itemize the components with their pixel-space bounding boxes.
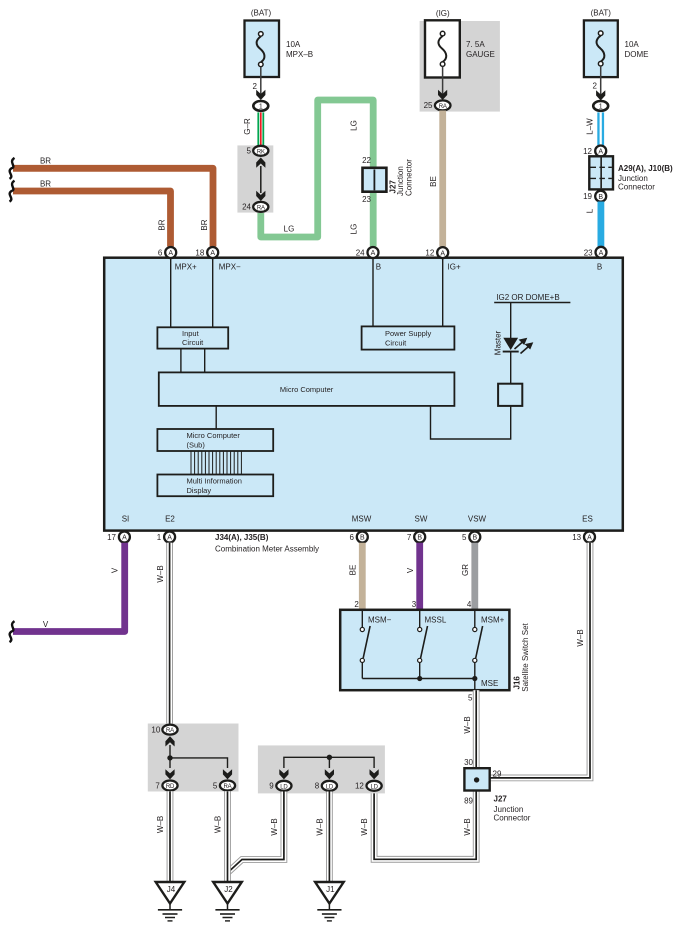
svg-text:B: B: [417, 535, 422, 542]
svg-text:W–B: W–B: [576, 629, 585, 646]
connector arrow below fuse MPX-B: [256, 90, 265, 100]
svg-text:J1: J1: [326, 885, 335, 894]
terminal 18 A circle: [195, 247, 218, 258]
svg-text:LG: LG: [350, 120, 359, 131]
svg-text:A: A: [371, 250, 376, 257]
wire L to terminal 23: [598, 202, 605, 247]
svg-text:5: 5: [213, 781, 218, 790]
ground J2: [213, 882, 242, 921]
svg-text:DOME: DOME: [625, 50, 649, 59]
svg-text:VSW: VSW: [468, 515, 487, 524]
svg-text:IG+: IG+: [448, 263, 461, 272]
svg-text:Connector: Connector: [405, 159, 414, 196]
svg-text:W–B: W–B: [156, 816, 165, 833]
svg-text:1: 1: [157, 533, 162, 542]
junction dot MSM+/bus: [472, 676, 477, 681]
wire W-B from J27 pin 89 to 12 LD: [374, 791, 476, 860]
lead wire 24A to power supply: [372, 259, 374, 327]
lead LED to resistor box: [510, 351, 512, 384]
svg-text:12: 12: [583, 147, 592, 156]
svg-text:SW: SW: [415, 515, 428, 524]
svg-text:V: V: [406, 567, 415, 573]
svg-text:RA: RA: [224, 784, 232, 790]
LED master indicator: [503, 338, 534, 354]
multi information display block: [157, 475, 273, 497]
svg-text:W–B: W–B: [214, 816, 223, 833]
svg-text:Power Supply: Power Supply: [385, 329, 432, 338]
wire BR to terminal 18: [13, 168, 213, 246]
terminal 8 LD oval: [315, 781, 337, 791]
connector block gray 10RA/7RD/5RA: [148, 724, 239, 792]
svg-text:10A: 10A: [625, 40, 640, 49]
wire L-W striped: [597, 112, 604, 146]
wire W-B from 7 RD to ground J4: [167, 791, 174, 882]
lead MSE to box edge: [474, 679, 476, 691]
svg-text:B: B: [376, 263, 381, 272]
svg-text:9: 9: [269, 782, 274, 791]
lead wire 12A to power supply: [442, 259, 444, 327]
wire to 7RD and 5RA: [170, 758, 228, 768]
svg-text:Satellite Switch Set: Satellite Switch Set: [521, 622, 530, 691]
svg-text:23: 23: [362, 195, 371, 204]
junction connector J27 pins 30/29/89: [464, 768, 531, 822]
terminal 12 A circle: [583, 146, 606, 157]
arrow down to 8 LD: [325, 769, 334, 779]
connector block gray RK/RA: [237, 145, 273, 212]
svg-text:MPX−: MPX−: [219, 263, 241, 272]
svg-text:BR: BR: [200, 219, 209, 230]
wire W-B from 5 RA to ground J2: [224, 791, 231, 882]
svg-text:A: A: [440, 250, 445, 257]
svg-text:LD: LD: [326, 784, 334, 790]
svg-text:RD: RD: [166, 784, 175, 790]
svg-text:V: V: [43, 620, 49, 629]
svg-text:2: 2: [354, 600, 359, 609]
svg-text:30: 30: [464, 758, 473, 767]
label J16 Satellite Switch Set: [513, 622, 531, 691]
svg-text:MPX–B: MPX–B: [286, 50, 313, 59]
svg-text:25: 25: [424, 101, 433, 110]
wire W-B from 8 LD to ground J1: [326, 792, 333, 883]
wire V from terminal 7B to switch pin 3: [416, 543, 423, 610]
terminal 12 LD oval: [355, 781, 382, 791]
continuation squiggle BR wire 1: [10, 158, 15, 179]
svg-text:7. 5A: 7. 5A: [466, 40, 485, 49]
svg-text:J34(A), J35(B): J34(A), J35(B): [215, 533, 269, 542]
bus wire in LD block: [284, 757, 374, 768]
svg-text:Display: Display: [187, 486, 212, 495]
node 1 oval: [253, 101, 268, 111]
label J34(A), J35(B) Combination Meter Assembly: [215, 533, 319, 554]
svg-text:Input: Input: [182, 329, 200, 338]
svg-text:10A: 10A: [286, 40, 301, 49]
svg-text:1: 1: [259, 104, 263, 111]
svg-text:A29(A), J10(B): A29(A), J10(B): [618, 164, 673, 173]
junction connector J27 pins 22/23: [362, 156, 413, 204]
svg-text:MSW: MSW: [352, 515, 372, 524]
bus wire MSE: [362, 678, 475, 680]
terminal 13 A circle: [572, 532, 595, 543]
lead micro computer to sub: [215, 406, 217, 429]
svg-text:A: A: [122, 535, 127, 542]
continuation squiggle V wire: [10, 621, 15, 642]
lead wire 6A to input circuit: [170, 259, 172, 328]
svg-text:W–B: W–B: [463, 716, 472, 733]
svg-text:GAUGE: GAUGE: [466, 50, 495, 59]
terminal 19 B circle: [583, 191, 606, 202]
svg-text:Micro Computer: Micro Computer: [280, 385, 334, 394]
terminal 12 A circle (IG+): [425, 247, 448, 258]
arrow down to 9 LD: [279, 769, 288, 779]
svg-text:12: 12: [425, 249, 434, 258]
svg-text:5: 5: [462, 533, 467, 542]
svg-text:A: A: [168, 250, 173, 257]
svg-text:Connector: Connector: [494, 814, 531, 823]
svg-text:BE: BE: [429, 176, 438, 187]
svg-text:10: 10: [151, 725, 160, 734]
svg-text:BR: BR: [40, 179, 51, 188]
svg-text:W–B: W–B: [156, 565, 165, 582]
wire between 12A and junction connector: [597, 157, 604, 191]
svg-text:18: 18: [195, 249, 204, 258]
svg-text:(Sub): (Sub): [187, 440, 206, 449]
svg-text:L: L: [586, 208, 595, 213]
svg-text:8: 8: [315, 782, 320, 791]
svg-text:IG2 OR DOME+B: IG2 OR DOME+B: [496, 293, 559, 302]
svg-text:W–B: W–B: [315, 818, 324, 835]
continuation squiggle BR wire 2: [10, 181, 15, 202]
svg-text:J4: J4: [167, 885, 176, 894]
svg-text:B: B: [597, 263, 602, 272]
svg-text:MSM−: MSM−: [368, 616, 392, 625]
svg-text:LG: LG: [350, 224, 359, 235]
svg-text:J2: J2: [224, 885, 233, 894]
micro computer block: [159, 372, 455, 406]
terminal 17 A circle: [107, 532, 130, 543]
svg-text:A: A: [599, 250, 604, 257]
arrow down to 12 LD: [370, 769, 379, 779]
svg-text:W–B: W–B: [270, 818, 279, 835]
svg-text:W–B: W–B: [463, 818, 472, 835]
svg-text:2: 2: [253, 82, 258, 91]
svg-text:22: 22: [362, 156, 371, 165]
terminal 10 RA oval: [151, 725, 177, 735]
junction dot left block: [167, 755, 172, 760]
svg-text:MSSL: MSSL: [425, 616, 447, 625]
connector arrow below fuse DOME: [596, 90, 605, 100]
lead wire 18A to input circuit: [212, 259, 214, 328]
svg-text:W–B: W–B: [360, 818, 369, 835]
wire BE from terminal 6B to switch pin 2: [359, 543, 366, 610]
node 1 oval (dome): [593, 101, 608, 111]
svg-text:SI: SI: [122, 515, 130, 524]
switch MSM-: [360, 611, 370, 679]
fuse 10A MPX-B: [245, 9, 314, 100]
power supply circuit block: [362, 326, 455, 349]
svg-text:MSM+: MSM+: [481, 616, 505, 625]
svg-text:3: 3: [412, 600, 417, 609]
net IG2 OR DOME+B: [494, 293, 570, 303]
svg-text:LG: LG: [284, 225, 295, 234]
svg-text:A: A: [210, 250, 215, 257]
terminal 5 RK oval: [247, 146, 269, 156]
svg-text:24: 24: [356, 249, 365, 258]
svg-text:LD: LD: [370, 784, 378, 790]
svg-text:RA: RA: [166, 728, 174, 734]
terminal 25 RA oval: [424, 100, 451, 110]
svg-text:GR: GR: [461, 564, 470, 576]
wire GR from terminal 5B to switch pin 4: [471, 543, 478, 610]
connector arrow above 25 RA: [438, 90, 447, 100]
connector block gray 9LD/8LD/12LD: [258, 745, 385, 793]
svg-text:4: 4: [467, 600, 472, 609]
svg-text:12: 12: [355, 782, 364, 791]
svg-text:29: 29: [493, 770, 502, 779]
lead micro computer to resistor box: [431, 406, 511, 439]
input circuit block: [157, 327, 228, 348]
arrow down to 7 RD: [165, 769, 174, 779]
svg-text:G–R: G–R: [243, 118, 252, 135]
svg-text:24: 24: [242, 203, 251, 212]
svg-text:B: B: [598, 194, 603, 201]
svg-text:LD: LD: [280, 784, 288, 790]
wire W-B from terminal 13 to J27 pin 29: [490, 543, 590, 778]
junction connector A29(A), J10(B): [589, 156, 673, 191]
svg-text:Circuit: Circuit: [385, 338, 407, 347]
arrow up below 10 RA: [165, 736, 174, 746]
svg-text:1: 1: [599, 104, 603, 111]
terminal 5 RA oval: [213, 781, 235, 791]
wire LG from RA to terminal 24 via J27: [261, 100, 373, 247]
svg-text:A: A: [587, 535, 592, 542]
terminal 7 B circle: [407, 532, 425, 543]
svg-text:Multi Information: Multi Information: [187, 477, 242, 486]
junction dot MSSL/bus: [417, 676, 422, 681]
terminal 5 B circle: [462, 532, 480, 543]
satellite switch set J16 box: [340, 610, 509, 690]
micro computer (sub) block: [157, 429, 273, 451]
terminal 6 B circle: [349, 532, 367, 543]
terminal 7 RD oval: [155, 781, 177, 791]
terminal 23 A circle: [584, 247, 607, 258]
arrow up to RK: [256, 158, 265, 168]
svg-text:7: 7: [155, 781, 160, 790]
wire W-B MSE to J27 pin 30: [473, 690, 480, 768]
wire 10RA to junction dot: [169, 745, 171, 758]
svg-text:RA: RA: [257, 205, 265, 211]
svg-text:6: 6: [349, 533, 354, 542]
svg-text:RK: RK: [257, 149, 265, 155]
leads input circuit to micro computer: [180, 349, 182, 373]
svg-text:Combination Meter Assembly: Combination Meter Assembly: [215, 545, 319, 554]
svg-text:BR: BR: [158, 219, 167, 230]
svg-text:19: 19: [583, 192, 592, 201]
svg-text:5: 5: [468, 694, 473, 703]
svg-text:89: 89: [464, 797, 473, 806]
svg-text:7: 7: [407, 533, 412, 542]
arrow down to 5 RA: [223, 769, 232, 779]
arrow down to RA: [256, 191, 265, 201]
svg-text:Connector: Connector: [618, 183, 655, 192]
svg-text:(IG): (IG): [436, 9, 450, 18]
svg-text:13: 13: [572, 533, 581, 542]
svg-text:5: 5: [247, 147, 252, 156]
terminal 1 A circle: [157, 532, 175, 543]
svg-text:RA: RA: [439, 104, 447, 110]
svg-text:B: B: [360, 535, 365, 542]
svg-text:V: V: [111, 567, 120, 573]
wire V from terminal 17: [13, 543, 125, 632]
svg-text:Micro Computer: Micro Computer: [187, 431, 241, 440]
svg-text:MPX+: MPX+: [175, 263, 197, 272]
wire W-B from terminal 1 to 10 RA: [166, 543, 173, 725]
ground J4: [156, 882, 185, 921]
wire BE to terminal 12: [439, 111, 446, 247]
svg-text:B: B: [472, 535, 477, 542]
svg-text:Master: Master: [494, 330, 503, 355]
wire G-R striped: [257, 112, 264, 146]
fuse 10A DOME: [584, 9, 649, 100]
svg-text:23: 23: [584, 248, 593, 257]
switch MSM+: [473, 611, 483, 679]
svg-text:A: A: [598, 149, 603, 156]
combination meter assembly main box: [104, 258, 623, 531]
svg-text:BR: BR: [40, 157, 51, 166]
junction dot LD block: [327, 755, 332, 760]
svg-text:MSE: MSE: [481, 679, 498, 688]
fuse 7.5A GAUGE (IG) with gray background: [420, 9, 500, 112]
svg-text:E2: E2: [165, 515, 175, 524]
ground J1: [315, 882, 344, 921]
ribbon cable hatch: [191, 451, 241, 475]
wire between RK and RA: [260, 166, 262, 193]
svg-text:BE: BE: [349, 565, 358, 576]
svg-text:2: 2: [593, 82, 598, 91]
svg-text:L–W: L–W: [586, 118, 595, 135]
svg-text:ES: ES: [582, 515, 593, 524]
svg-text:6: 6: [158, 249, 163, 258]
svg-text:17: 17: [107, 533, 116, 542]
svg-text:A: A: [167, 535, 172, 542]
wire BR to terminal 6: [13, 191, 171, 247]
svg-text:J27: J27: [494, 795, 508, 804]
svg-text:(BAT): (BAT): [591, 9, 612, 18]
terminal 9 LD oval: [269, 781, 291, 791]
svg-text:(BAT): (BAT): [251, 9, 272, 18]
wire W-B from 9 LD merging to J2: [228, 792, 284, 873]
terminal 6 A circle: [158, 247, 176, 258]
lead from IG2 to LED: [510, 303, 512, 339]
terminal 24 RA oval: [242, 202, 268, 212]
terminal 24 A circle: [356, 247, 379, 258]
svg-text:Circuit: Circuit: [182, 338, 204, 347]
switch MSSL: [418, 611, 428, 679]
resistor square box: [498, 384, 522, 406]
